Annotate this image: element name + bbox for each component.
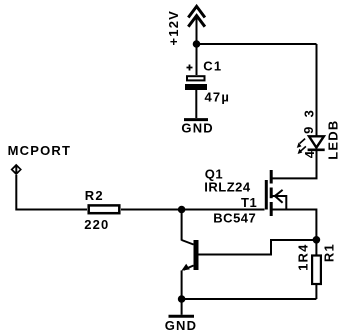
svg-text:MCPORT: MCPORT: [8, 143, 72, 158]
capacitor C1: [185, 65, 207, 91]
svg-text:4: 4: [302, 150, 317, 158]
wire: [195, 90, 197, 118]
svg-text:R1: R1: [322, 243, 337, 262]
resistor R2: [89, 205, 120, 213]
connector MCPORT: [11, 164, 22, 175]
svg-text:BC547: BC547: [213, 211, 256, 226]
svg-text:47µ: 47µ: [205, 89, 231, 104]
wire base network: [199, 240, 317, 255]
wire: [16, 175, 87, 210]
wire emitter: [181, 271, 183, 300]
svg-text:220: 220: [84, 217, 109, 232]
svg-text:LEDB: LEDB: [326, 119, 341, 159]
ground GND upper: [181, 120, 214, 136]
wire: [316, 44, 318, 136]
wire: [182, 298, 317, 300]
mosfet Q1 IRLZ24: [266, 170, 286, 216]
node junction: [313, 236, 321, 244]
node junction: [193, 40, 201, 48]
wire collector: [181, 210, 183, 241]
led LEDB: [297, 136, 325, 154]
svg-text:1R4: 1R4: [295, 243, 310, 270]
transistor T1 BC547: [181, 240, 198, 271]
power symbol +12V: [188, 6, 205, 26]
svg-text:C1: C1: [203, 59, 222, 74]
wire: [196, 16, 198, 75]
svg-text:R2: R2: [85, 188, 104, 203]
svg-text:9: 9: [301, 125, 316, 133]
svg-text:T1: T1: [241, 195, 257, 210]
wire source: [272, 210, 316, 241]
svg-text:IRLZ24: IRLZ24: [204, 179, 251, 194]
node junction: [178, 206, 186, 214]
svg-text:3: 3: [302, 109, 317, 117]
resistor R1: [312, 240, 321, 299]
wire drain: [272, 150, 317, 178]
node junction: [178, 295, 186, 303]
svg-text:+12V: +12V: [166, 10, 181, 46]
svg-text:GND: GND: [181, 120, 214, 135]
wire: [121, 209, 265, 211]
svg-text:GND: GND: [165, 318, 198, 333]
wire: [197, 43, 317, 45]
ground GND lower: [165, 299, 198, 333]
